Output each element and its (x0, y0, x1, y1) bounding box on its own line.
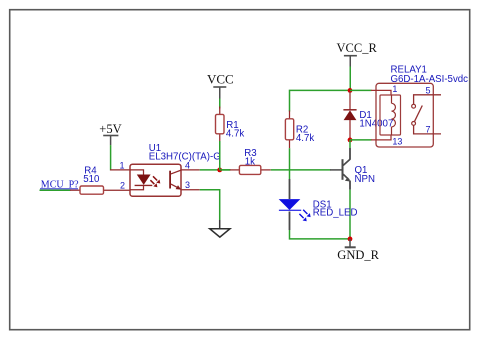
svg-text:GND_R: GND_R (337, 248, 379, 262)
junction node VCC_R/D1/relay pin1 (348, 88, 353, 93)
svg-text:1: 1 (119, 160, 124, 170)
wire R3 to Q1 base (271, 169, 331, 171)
resistor R4 (70, 186, 130, 194)
svg-text:+5V: +5V (99, 122, 121, 136)
wire junction to relay pin 13 (350, 139, 372, 141)
power GND_R (337, 239, 379, 262)
svg-text:4: 4 (185, 160, 190, 170)
svg-text:13: 13 (392, 136, 402, 146)
relay RELAY1 G6D-1A-ASI-5vdc (371, 83, 441, 147)
svg-text:4.7k: 4.7k (296, 133, 314, 144)
diode D1 1N4007 (343, 92, 356, 140)
resistor R1 (216, 107, 225, 142)
svg-text:3: 3 (185, 180, 190, 190)
power VCC_R (337, 41, 378, 66)
svg-text:2: 2 (120, 180, 125, 190)
svg-text:NPN: NPN (355, 174, 375, 185)
net label MCU_P? (40, 179, 79, 190)
svg-text:4.7k: 4.7k (226, 129, 244, 140)
wire junction to R3 (220, 169, 231, 171)
wire +5V down to U1 pin1 (110, 145, 112, 170)
junction node GND_R (348, 237, 353, 242)
wire R2 to DS1 (289, 148, 291, 179)
svg-text:1k: 1k (245, 157, 255, 168)
svg-text:VCC: VCC (207, 71, 234, 86)
LED DS1 (279, 179, 311, 230)
power VCC (207, 71, 234, 98)
svg-text:5: 5 (426, 85, 431, 95)
wire rail to relay pin 1 (350, 89, 372, 91)
wire VCC_R down to rail (349, 67, 351, 91)
wire Q1 emitter to GND_R (349, 190, 351, 239)
ground (210, 220, 230, 237)
svg-text:RED_LED: RED_LED (313, 208, 358, 219)
wire DS1 to GND_R rail (290, 230, 351, 239)
junction node D1/relay pin13/Q1 collector (348, 138, 353, 143)
op-amp U1 optocoupler EL3H7 (110, 164, 200, 196)
svg-text:510: 510 (83, 174, 100, 185)
power +5V (99, 122, 121, 145)
junction node U1.4/R1/R3 (217, 168, 222, 173)
svg-text:G6D-1A-ASI-5vdc: G6D-1A-ASI-5vdc (391, 74, 469, 85)
resistor R3 (230, 165, 271, 174)
resistor R2 (285, 111, 293, 149)
wire U1 pin4 to junction (200, 169, 230, 171)
wire rail left to R2 (290, 90, 351, 111)
wire MCU_P? to R4 (40, 189, 71, 191)
wire junction down to Q1 collector (349, 140, 351, 148)
wire R1 to junction (219, 141, 221, 170)
transistor Q1 (330, 148, 351, 190)
wire U1 pin3 to ground (200, 190, 220, 220)
svg-text:7: 7 (426, 125, 431, 135)
svg-text:VCC_R: VCC_R (337, 41, 378, 55)
svg-text:1: 1 (392, 84, 397, 94)
wire VCC to R1 (219, 99, 221, 109)
